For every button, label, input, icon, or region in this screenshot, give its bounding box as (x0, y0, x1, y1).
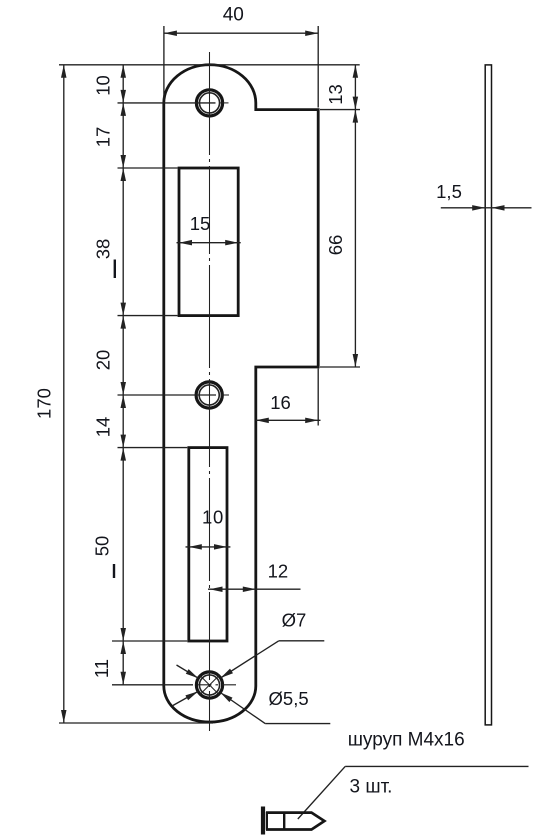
countersink arrow upper-left (177, 665, 199, 678)
svg-text:66: 66 (325, 235, 346, 256)
extension line y=168 (top of latch cutout) (118, 167, 178, 169)
svg-text:10: 10 (93, 75, 114, 96)
label 10 (93, 75, 114, 96)
dimension 1,5 (thickness) (436, 181, 531, 211)
dimension 66 (320, 110, 360, 367)
screw M4x16 drawing (263, 807, 324, 835)
dimension 16 (256, 369, 321, 426)
svg-text:11: 11 (91, 659, 112, 678)
leader and label Ø5,5 (220, 688, 330, 724)
bottom screw hole (196, 672, 222, 698)
top hole horizontal centerline / extension (118, 102, 229, 104)
svg-text:16: 16 (270, 392, 291, 413)
side view plate (thickness) (485, 65, 491, 725)
svg-text:1,5: 1,5 (436, 181, 462, 202)
left chain dimension line with arrows (121, 65, 127, 685)
svg-text:38: 38 (93, 239, 114, 260)
strike plate outline (front view) (164, 65, 318, 722)
label 20 (93, 350, 114, 371)
label 17 (93, 127, 114, 148)
svg-text:Ø5,5: Ø5,5 (269, 688, 309, 709)
svg-text:20: 20 (93, 350, 114, 371)
svg-text:1: 1 (202, 507, 212, 528)
dimension 12 (208, 560, 301, 592)
svg-text:50: 50 (92, 536, 113, 557)
svg-text:0: 0 (213, 507, 223, 528)
countersink cross lines (200, 675, 219, 694)
middle screw hole (196, 382, 222, 408)
dimension 13 (325, 65, 358, 110)
svg-text:13: 13 (325, 84, 346, 105)
svg-text:15: 15 (190, 213, 211, 234)
dimension 40 (overall width) (164, 5, 318, 108)
svg-text:3 шт.: 3 шт. (350, 776, 393, 797)
vertical centerline (209, 52, 211, 731)
countersink arrow lower-left (172, 691, 198, 706)
svg-text:170: 170 (34, 388, 55, 419)
dimension 10 (186, 507, 231, 550)
svg-text:17: 17 (93, 127, 114, 148)
label 11 (91, 659, 112, 678)
deadbolt cutout (lower rectangular hole 10x50) (189, 448, 227, 641)
extension line y=315.6 (bottom of latch cutout) (118, 315, 178, 317)
label 50 with underline (92, 536, 115, 578)
svg-text:40: 40 (223, 5, 244, 26)
top screw hole (196, 90, 222, 116)
latch cutout (upper rectangular hole 15x38) (179, 168, 238, 316)
svg-text:12: 12 (268, 560, 289, 581)
extension line y=641 (bottom of deadbolt cutout) (112, 640, 187, 642)
svg-text:Ø7: Ø7 (282, 610, 307, 631)
dimension 170 (overall height) (34, 65, 360, 723)
screw note leader line (298, 766, 529, 819)
dimension 15 (177, 213, 241, 245)
label 38 with underline (93, 239, 115, 278)
bottom hole horizontal centerline / extension (112, 684, 236, 686)
middle hole horizontal centerline / extension (118, 394, 230, 396)
extension line y=447.6 (top of deadbolt cutout) (118, 447, 188, 449)
svg-text:14: 14 (93, 417, 114, 438)
svg-text:шуруп M4x16: шуруп M4x16 (348, 729, 465, 750)
label шуруп M4x16 (348, 729, 465, 750)
leader and label Ø7 (221, 610, 325, 679)
label 3 шт. (350, 776, 393, 797)
label 14 (93, 417, 114, 438)
